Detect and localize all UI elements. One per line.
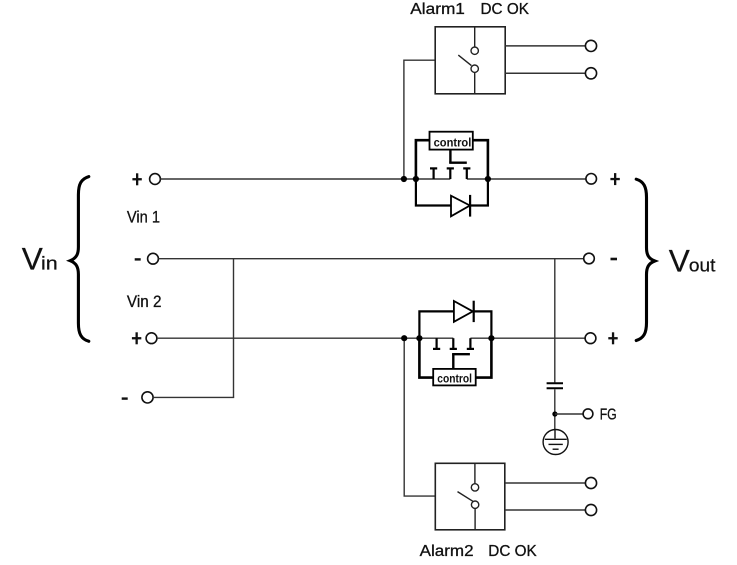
svg-text:Vin 2: Vin 2 [127,293,162,311]
diode D1 cathode bar [469,195,471,217]
label + at Vin2+ [132,332,141,344]
left curly brace [70,177,89,342]
svg-text:control: control [434,135,472,149]
diode D2 cathode bar [473,301,475,322]
electrode Q2 T2 [450,338,457,349]
electrode Q1 T1 [430,168,437,179]
wire U2 right thick [476,338,492,377]
right curly brace [636,179,655,340]
junction dot alarm2 feed [401,335,407,341]
relay K2 box [435,463,505,530]
terminal alarm1 B [585,68,596,79]
junction dot Q2 left [416,335,422,341]
wire Vin2- vertical join to -V rail [233,259,235,398]
junction dot Q2 right [488,335,494,341]
control box U1 [430,132,473,150]
wire U2 left thick [419,338,433,377]
diode D2 loop [419,311,454,339]
relay K2 switch [458,463,479,530]
diode D1 loop [416,178,451,206]
wire alarm1 feed [404,60,435,179]
svg-text:V: V [22,241,43,277]
wire FG [555,413,583,415]
terminal FG [583,409,593,419]
terminal alarm2 B [585,504,596,515]
junction dot Q1 left [413,176,419,182]
diode D2 triangle [454,301,473,322]
wire U1 right thick [473,140,488,179]
label - at Vin2- [122,397,128,399]
wire +V2 rail left segment [157,337,453,339]
svg-text:FG: FG [600,406,617,423]
wire Vin2- horizontal [153,396,234,398]
label - at Vout- [611,258,618,261]
label + at Vout+ top [610,173,619,185]
label + at Vout+ bottom [608,332,617,344]
electrode Q1 T2 [447,168,454,179]
svg-text:V: V [669,242,690,278]
svg-text:control: control [437,372,472,386]
gate Q2 [452,354,470,369]
wire K1 contact A [505,45,585,47]
wire -V rail [158,258,583,260]
svg-text:out: out [689,254,716,275]
terminal alarm1 A [585,40,596,51]
wire +V2 rail right segment [470,337,585,339]
svg-text:Alarm1: Alarm1 [410,1,465,18]
wire K1 contact B [505,72,585,74]
wire +V1 rail right segment [467,178,586,180]
junction dot Q1 right [485,176,491,182]
electrode Q2 T1 [433,338,440,349]
junction dot FG [552,411,557,416]
diode D1 triangle [451,196,470,217]
terminal alarm2 A [585,477,596,488]
earth ground symbol [543,430,568,455]
junction dot alarm1 feed [401,176,407,182]
svg-text:Alarm2: Alarm2 [420,543,474,560]
svg-text:DC OK: DC OK [481,1,530,18]
relay K1 box [435,27,505,94]
gate Q1 [449,150,467,163]
label Vout [669,242,716,278]
terminal Vout- [584,253,595,264]
svg-text:DC OK: DC OK [488,543,537,560]
terminal Vout+ bottom [585,333,596,344]
control box U2 [433,369,476,386]
terminal Vin2- [142,392,153,403]
label + at Vin1+ [132,173,141,185]
wire K2 contact A [505,482,586,484]
electrode Q2 T3 [467,338,474,349]
wire cap vertical lower [554,389,556,430]
svg-text:Vin 1: Vin 1 [127,209,160,227]
wire alarm2 feed [404,338,435,496]
capacitor C1 plate bottom [547,387,563,389]
terminal Vout+ top [586,174,597,185]
label - at Vin1- [135,258,141,260]
electrode Q1 T3 [463,168,470,179]
label Vin [22,241,58,277]
relay K1 switch [458,27,478,94]
capacitor C1 plate top [547,382,563,384]
wire cap vertical upper [554,259,556,383]
wire U1 left thick [416,140,430,179]
terminal Vin2+ [146,333,157,344]
wire +V1 rail left segment [160,178,450,180]
terminal Vin1+ [150,174,161,185]
wire K2 contact B [505,509,586,511]
svg-text:in: in [41,253,58,274]
terminal Vin1- [148,253,159,264]
